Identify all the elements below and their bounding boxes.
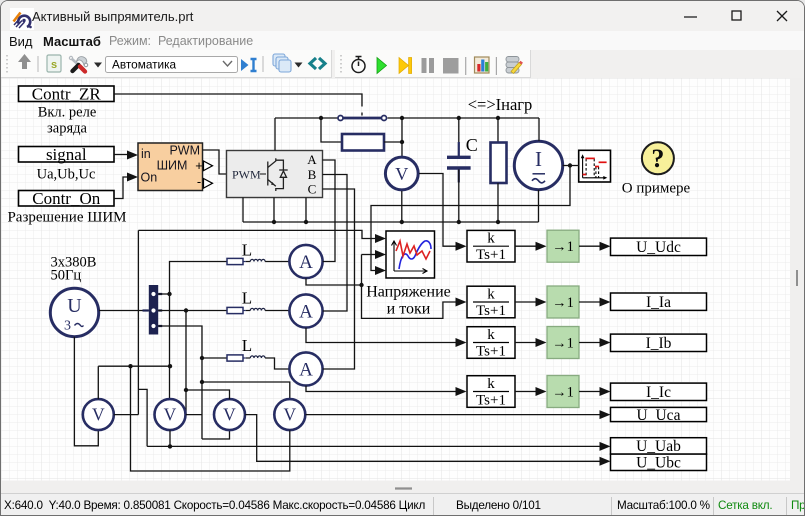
voltmeter V3 xyxy=(214,399,245,430)
svg-text:I_Ib: I_Ib xyxy=(646,335,672,352)
wire A1 to k2 xyxy=(362,285,457,318)
wire Contr_ZR to relay xyxy=(114,94,362,103)
wire k1 to sat1 xyxy=(515,245,536,247)
wire Vdc to k1 xyxy=(419,174,456,247)
svg-text:I_Ia: I_Ia xyxy=(646,294,671,311)
svg-text:Ts+1: Ts+1 xyxy=(476,344,506,360)
arrow U_Uca in xyxy=(600,410,611,419)
junction phase B xyxy=(184,308,188,312)
wire load bottom xyxy=(497,183,499,222)
bus splitter xyxy=(143,285,163,335)
voltmeter V2 xyxy=(155,399,186,430)
wire I signal to scope xyxy=(371,166,570,271)
wire V3 to U_Ubc xyxy=(245,415,600,462)
svg-text:V: V xyxy=(223,405,236,425)
arrow U_Uab in xyxy=(600,442,611,451)
PWM output hollow arrow - xyxy=(204,179,213,189)
scope block Напряжение и токи xyxy=(386,231,435,278)
wire to relay contact xyxy=(321,117,338,119)
svg-text:Ts+1: Ts+1 xyxy=(476,393,506,409)
svg-text:→1: →1 xyxy=(552,385,574,401)
port U_Uab xyxy=(611,438,707,455)
transfer function W1 k/Ts+1 xyxy=(467,230,515,263)
wire L2 to A2 xyxy=(265,310,289,312)
voltmeter V4 xyxy=(274,399,305,430)
svg-text:B: B xyxy=(308,167,317,182)
wire V DC bottom xyxy=(401,191,403,222)
wire A1 signal xyxy=(306,278,362,285)
wire V2 bottom xyxy=(169,430,171,446)
vertical scrollbar thumb xyxy=(796,270,798,286)
arrow I_Ia in xyxy=(600,298,611,307)
svg-text:→1: →1 xyxy=(552,239,574,255)
wire capacitor bottom xyxy=(458,170,460,223)
PWM output hollow arrow + xyxy=(204,161,213,171)
svg-text:L: L xyxy=(242,241,252,260)
junction rail pin3 xyxy=(304,220,308,224)
port I_Ib xyxy=(611,334,707,352)
svg-text:Ua,Ub,Uc: Ua,Ub,Uc xyxy=(37,167,96,183)
wire to U_Uab xyxy=(147,445,600,447)
wire A1 to scope in2 xyxy=(361,255,363,286)
current source I load xyxy=(514,141,562,189)
load resistor R2 xyxy=(491,143,507,184)
arrow k4 in xyxy=(456,387,467,396)
wire L1 to A1 xyxy=(265,261,289,263)
wire phase C to V4 top xyxy=(202,382,290,399)
wire sat4 to I_Ic xyxy=(579,391,600,393)
svg-text:Вкл. реле: Вкл. реле xyxy=(38,105,97,121)
wire bus A stub xyxy=(158,293,169,295)
junction rail-relay right xyxy=(400,116,404,120)
wire bridge top pin xyxy=(274,118,276,151)
wire bridge C to A3 xyxy=(323,189,355,369)
svg-text:A: A xyxy=(307,152,317,167)
svg-text:U_Uca: U_Uca xyxy=(637,407,681,424)
junction cap top xyxy=(457,116,461,120)
wire bridge bottom pin2 xyxy=(273,198,275,223)
inductor L3 xyxy=(227,355,265,361)
svg-text:U_Udc: U_Udc xyxy=(636,239,681,256)
arrow I_Ib in xyxy=(600,338,611,347)
wire bus C riser xyxy=(158,326,202,439)
svg-text:?: ? xyxy=(651,144,664,173)
svg-text:Contr_ZR: Contr_ZR xyxy=(32,85,102,104)
wire bridge A to A1 xyxy=(323,160,336,262)
arrow into PWM On xyxy=(127,173,138,182)
svg-text:A: A xyxy=(299,360,313,381)
port Contr_On xyxy=(19,189,115,208)
svg-text:PWM: PWM xyxy=(169,144,200,158)
unit delay block 1 xyxy=(547,230,579,262)
horizontal scrollbar thumb xyxy=(395,487,412,489)
svg-text:PWM: PWM xyxy=(232,168,261,182)
wire A3 to k4 xyxy=(306,386,456,392)
wire k4 to sat4 xyxy=(515,391,536,393)
svg-text:Contr_On: Contr_On xyxy=(32,189,101,208)
inductor L1 xyxy=(227,258,265,264)
wire to charge resistor left xyxy=(321,118,342,142)
wire rail to relay xyxy=(275,117,321,119)
arrow scope in3 xyxy=(375,266,386,275)
junction phase C V4 xyxy=(200,380,204,384)
junction rail cap xyxy=(457,220,461,224)
voltmeter V DC link xyxy=(385,157,418,190)
wire V4 to U_Uca xyxy=(306,414,601,416)
wire phase A to L1 xyxy=(170,262,228,295)
transfer function W2 k/Ts+1 xyxy=(467,286,515,319)
port I_Ic xyxy=(611,383,707,401)
wire phase C to V3 bottom xyxy=(202,430,230,439)
arrow sat4 in xyxy=(536,387,547,396)
transfer function W4 k/Ts+1 xyxy=(467,376,515,409)
capacitor C1 xyxy=(447,142,471,183)
wire charge resistor right xyxy=(384,141,402,143)
junction rail pin2 xyxy=(272,220,276,224)
svg-text:k: k xyxy=(487,376,495,392)
svg-text:U_Uab: U_Uab xyxy=(636,438,681,455)
arrow scope in2 xyxy=(375,250,386,259)
wire phase C to L3 xyxy=(202,357,227,359)
svg-text:Напряжение: Напряжение xyxy=(366,284,451,301)
wire V4 bottom loop xyxy=(131,366,290,471)
wire U neutral to V1 xyxy=(74,337,98,446)
port I_Ia xyxy=(611,293,707,311)
IGBT bridge block U2 xyxy=(227,151,323,198)
wire bridge B to A2 xyxy=(323,175,348,312)
svg-text:V: V xyxy=(92,405,105,425)
svg-text:U: U xyxy=(67,295,82,317)
arrow U_Udc in xyxy=(600,242,611,251)
wire sat1 to U_Udc xyxy=(579,245,600,247)
svg-text:I_Ic: I_Ic xyxy=(646,384,671,401)
svg-text:V: V xyxy=(164,405,177,425)
port U_Uca xyxy=(611,407,707,424)
wire bus B to L2 xyxy=(158,310,227,312)
arrow sat3 in xyxy=(536,338,547,347)
ammeter A2 xyxy=(289,294,322,327)
wire V2 right xyxy=(186,414,202,416)
svg-text:U_Ubc: U_Ubc xyxy=(636,455,681,472)
svg-text:<=>Інагр: <=>Інагр xyxy=(468,95,533,114)
ammeter A1 xyxy=(289,245,322,278)
svg-text:in: in xyxy=(141,147,151,161)
svg-text:+: + xyxy=(195,158,203,173)
relay contact K1 xyxy=(338,116,387,121)
port U_Ubc xyxy=(611,454,707,471)
wire V1 top xyxy=(97,366,99,399)
inductor L2 xyxy=(227,307,265,313)
wire I source top xyxy=(538,118,540,141)
svg-text:ШИМ: ШИМ xyxy=(157,159,188,173)
unit delay block 4 xyxy=(547,376,579,408)
wire DC+ rail right xyxy=(388,117,540,119)
wire V DC top xyxy=(401,118,403,156)
wire to Uab rail xyxy=(138,389,147,446)
port signal xyxy=(19,145,115,164)
svg-text:L: L xyxy=(242,336,252,355)
svg-text:V: V xyxy=(395,164,408,184)
voltmeter V1 xyxy=(83,399,114,430)
charge resistor R1 xyxy=(342,134,384,151)
svg-text:Ts+1: Ts+1 xyxy=(476,303,506,319)
wire load top xyxy=(497,118,499,143)
AC source U 3~ xyxy=(50,288,98,336)
svg-text:→1: →1 xyxy=(552,336,574,352)
junction V2 Uab xyxy=(168,444,172,448)
wire I to scope xyxy=(563,165,579,167)
svg-text:О примере: О примере xyxy=(622,181,691,197)
svg-text:signal: signal xyxy=(46,145,87,164)
junction I out xyxy=(568,163,572,167)
wire V1 right xyxy=(114,414,139,416)
svg-text:k: k xyxy=(487,231,495,247)
wire scope in2 stub xyxy=(362,254,378,256)
port Contr_ZR xyxy=(19,85,115,104)
svg-text:L: L xyxy=(242,289,252,308)
unit delay block 2 xyxy=(547,286,579,318)
IGBT transistor symbol Q1 xyxy=(268,158,288,191)
junction A1 signal xyxy=(359,283,363,287)
wire capacitor top xyxy=(458,118,460,156)
wire I source bottom xyxy=(538,190,540,222)
junction phase C L3 xyxy=(200,356,204,360)
wire k2 to sat2 xyxy=(515,301,536,303)
unit delay block 3 xyxy=(547,327,579,359)
svg-text:I: I xyxy=(535,147,542,171)
arrow I_Ic in xyxy=(600,387,611,396)
wire phase A riser xyxy=(169,294,171,399)
svg-text:и токи: и токи xyxy=(387,301,431,318)
svg-text:C: C xyxy=(466,135,478,155)
wire sat2 to I_Ia xyxy=(579,301,600,303)
wire phase B riser xyxy=(185,311,187,415)
svg-text:-: - xyxy=(197,174,201,189)
arrow into PWM in xyxy=(127,151,138,160)
svg-text:A: A xyxy=(299,302,313,323)
junction rail-relay left xyxy=(319,116,323,120)
help icon О примере xyxy=(642,142,674,174)
wire relay control dashed xyxy=(361,103,363,116)
port U_Udc xyxy=(611,238,707,256)
svg-text:Разрешение ШИМ: Разрешение ШИМ xyxy=(7,210,126,226)
svg-text:50Гц: 50Гц xyxy=(51,268,82,284)
wire U to bus xyxy=(99,310,149,312)
junction V1 net xyxy=(128,364,132,368)
wire signal to PWM in xyxy=(114,154,128,156)
wire phase B to V3 top xyxy=(186,390,230,399)
PWM modulator block U1 ШИМ xyxy=(138,143,203,191)
scope block load current xyxy=(579,150,611,182)
arrow k3 in xyxy=(456,338,467,347)
svg-text:k: k xyxy=(487,327,495,343)
svg-text:A: A xyxy=(299,252,313,273)
svg-text:заряда: заряда xyxy=(47,121,87,137)
svg-text:C: C xyxy=(308,182,317,197)
arrow scope in1 xyxy=(375,234,386,243)
arrow sat1 in xyxy=(536,242,547,251)
wire bridge bottom pin3 xyxy=(305,198,307,223)
svg-text:→1: →1 xyxy=(552,295,574,311)
wire A2 to k3 xyxy=(306,328,456,343)
arrow k2 in xyxy=(456,298,467,307)
arrow sat2 in xyxy=(536,298,547,307)
svg-text:Автоматика: Автоматика xyxy=(112,58,177,72)
arrow U_Ubc in xyxy=(600,457,611,466)
wire Contr_On to PWM On xyxy=(114,177,128,199)
wire V1 to scope in1 xyxy=(138,230,377,238)
junction phase A xyxy=(167,292,171,296)
wire DC- rail xyxy=(243,221,539,223)
junction phase A V2 xyxy=(168,364,172,368)
svg-text:3: 3 xyxy=(64,319,71,334)
svg-text:On: On xyxy=(141,171,158,185)
junction load top xyxy=(496,116,500,120)
wire V1 riser to scope xyxy=(137,230,139,414)
wire k3 to sat3 xyxy=(515,342,536,344)
wire sat3 to I_Ib xyxy=(579,342,600,344)
svg-text:k: k xyxy=(487,287,495,303)
junction rail V xyxy=(400,220,404,224)
svg-text:s: s xyxy=(51,59,57,71)
junction resistor-V xyxy=(400,140,404,144)
svg-text:Ts+1: Ts+1 xyxy=(476,247,506,263)
wire PWM to bridge xyxy=(203,150,227,174)
svg-text:V: V xyxy=(283,405,296,425)
ammeter A3 xyxy=(289,352,322,385)
wire V1 net xyxy=(98,365,170,367)
transfer function W3 k/Ts+1 xyxy=(467,327,515,360)
junction rail load xyxy=(496,220,500,224)
junction phase B V3 xyxy=(184,388,188,392)
wire bridge bottom pin1 xyxy=(242,198,244,223)
arrow k1 in xyxy=(456,242,467,251)
wire L3 to A3 xyxy=(265,358,289,369)
